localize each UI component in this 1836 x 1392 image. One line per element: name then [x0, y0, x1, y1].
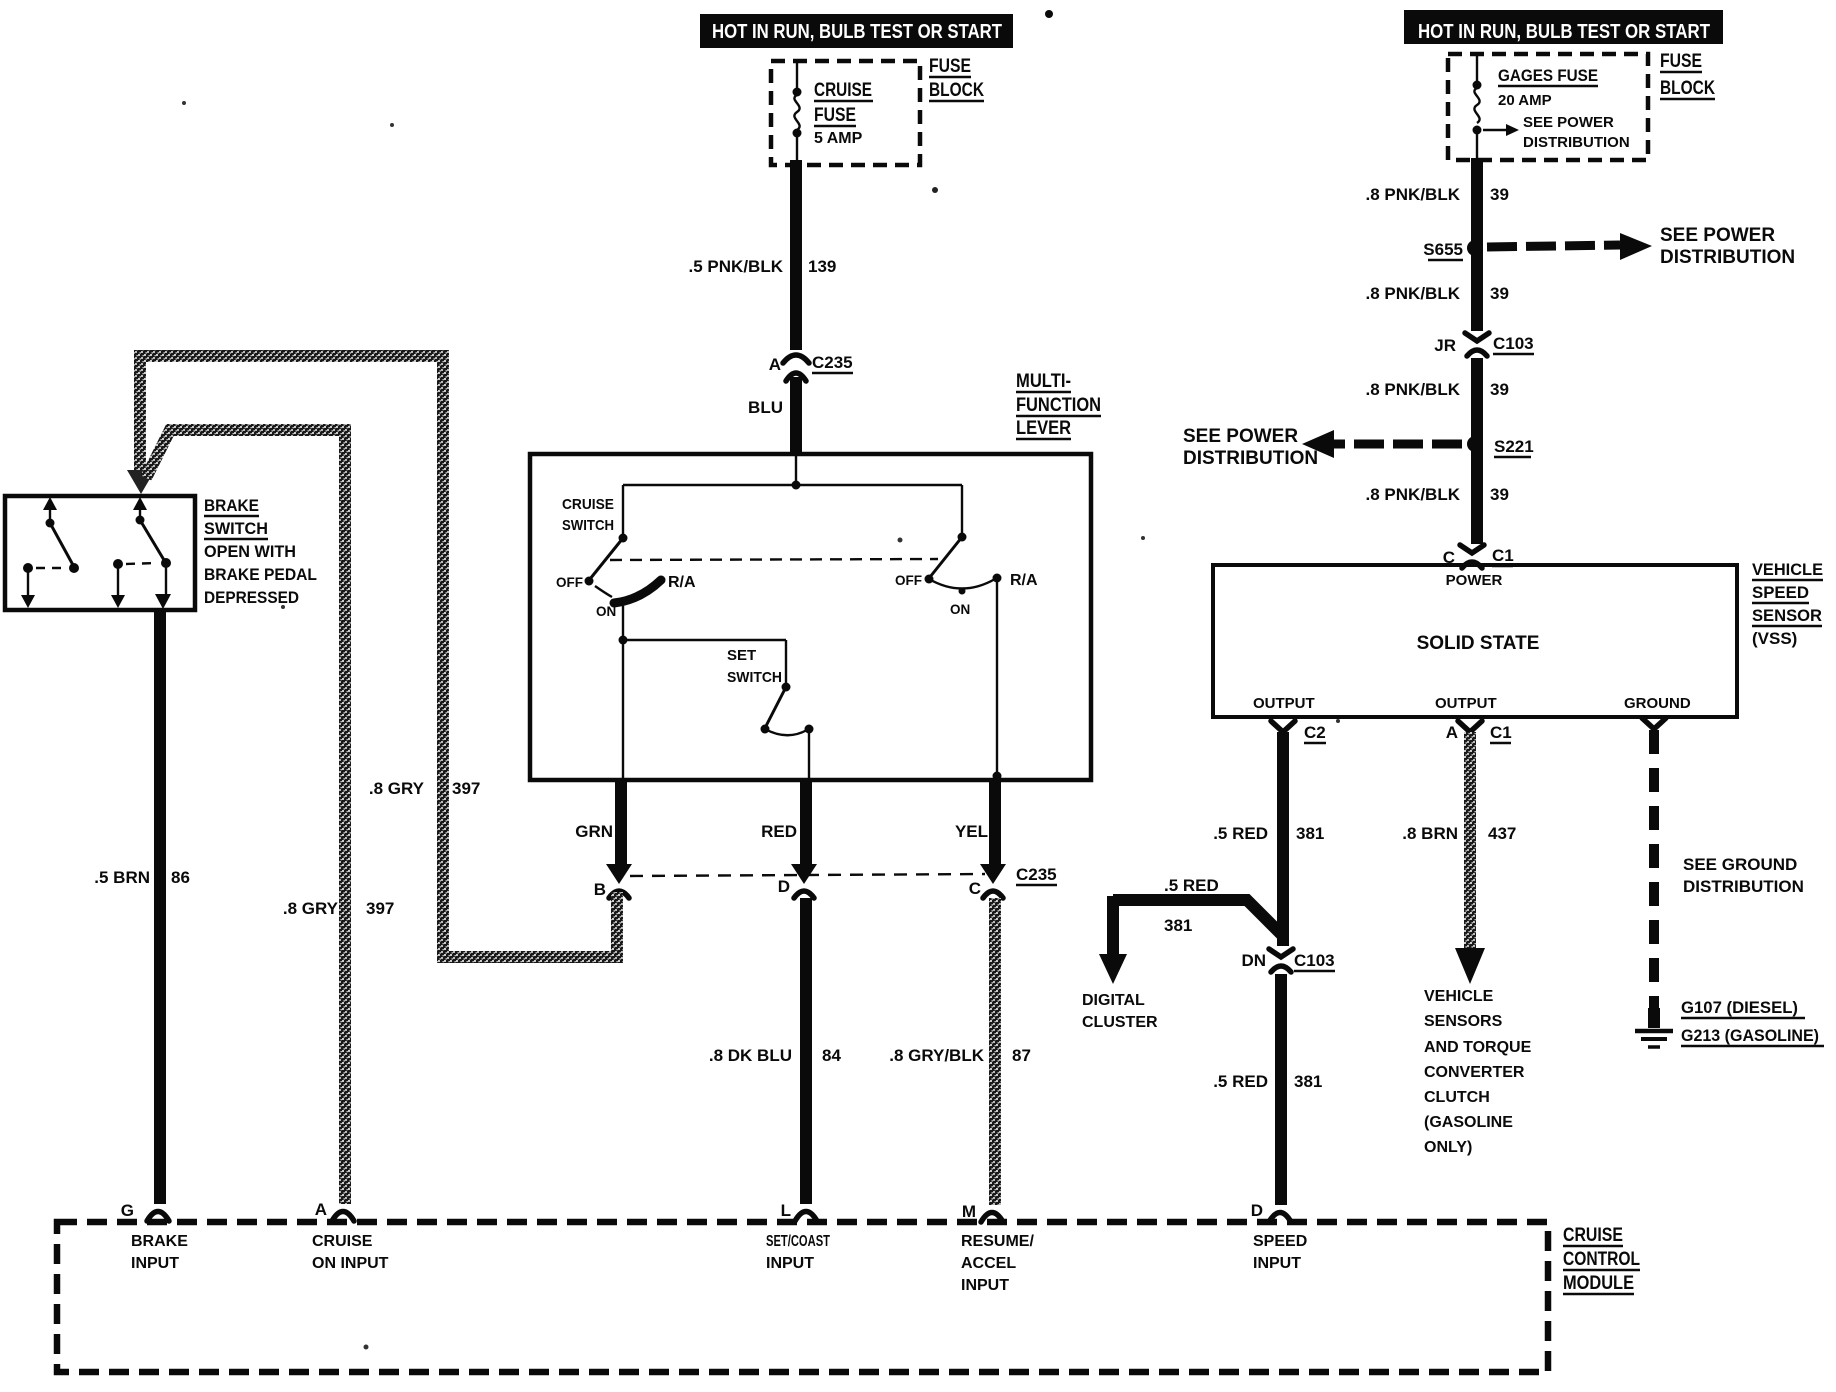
wire .8 GRY 397 from brake switch to module A (screened)	[146, 430, 394, 1204]
label BRAKE SWITCH OPEN WITH BRAKE PEDAL DEPRESSED	[204, 496, 317, 607]
svg-text:(VSS): (VSS)	[1752, 629, 1797, 648]
svg-text:GRN: GRN	[575, 822, 613, 841]
module pin A	[315, 1200, 354, 1221]
connector C235 pin A	[769, 353, 853, 381]
svg-text:.5 BRN: .5 BRN	[94, 868, 150, 887]
module pin M	[962, 1202, 1003, 1222]
label VEHICLE SENSORS AND TORQUE CONVERTER CLUTCH (GASOLINE ONLY)	[1424, 988, 1532, 1156]
label MULTI-FUNCTION LEVER	[1016, 371, 1101, 439]
svg-text:C103: C103	[1493, 334, 1534, 353]
svg-text:CONVERTER: CONVERTER	[1424, 1064, 1525, 1081]
wire 139 PNK/BLK from fuse to C235	[790, 160, 802, 350]
svg-text:SENSOR: SENSOR	[1752, 606, 1822, 625]
svg-text:84: 84	[822, 1046, 841, 1065]
svg-text:87: 87	[1012, 1046, 1031, 1065]
svg-text:.8 PNK/BLK: .8 PNK/BLK	[1366, 485, 1461, 504]
label G213 (GASOLINE)	[1681, 1026, 1824, 1046]
svg-text:BRAKE: BRAKE	[204, 496, 259, 515]
svg-text:CLUTCH: CLUTCH	[1424, 1089, 1490, 1106]
svg-text:INPUT: INPUT	[961, 1277, 1009, 1294]
label GROUND	[1624, 695, 1691, 712]
svg-text:GAGES FUSE: GAGES FUSE	[1498, 66, 1598, 85]
wire .8 PNK/BLK 39 seg1	[1366, 158, 1509, 331]
label CRUISE FUSE 5 AMP	[814, 80, 873, 147]
splice S221	[1467, 436, 1534, 457]
label SEE GROUND DISTRIBUTION	[1683, 855, 1804, 896]
svg-text:OUTPUT: OUTPUT	[1253, 695, 1315, 712]
module pin D	[1251, 1201, 1291, 1222]
dashed ground wire	[1649, 730, 1659, 1028]
svg-text:A: A	[769, 355, 781, 374]
label SOLID STATE	[1417, 633, 1540, 654]
svg-text:OUTPUT: OUTPUT	[1435, 695, 1497, 712]
svg-text:.8 GRY/BLK: .8 GRY/BLK	[889, 1046, 984, 1065]
svg-text:.5 PNK/BLK: .5 PNK/BLK	[689, 257, 784, 276]
svg-text:SEE POWER: SEE POWER	[1660, 225, 1775, 246]
dashed arrow right: see power distribution	[1487, 225, 1795, 268]
label .5 PNK/BLK 139	[689, 257, 837, 276]
node: lever feed junction	[792, 456, 801, 490]
svg-text:S655: S655	[1423, 240, 1463, 259]
svg-text:ACCEL: ACCEL	[961, 1255, 1016, 1272]
svg-text:C1: C1	[1492, 546, 1514, 565]
svg-text:SOLID STATE: SOLID STATE	[1417, 633, 1540, 654]
set switch	[761, 683, 814, 779]
svg-text:SENSORS: SENSORS	[1424, 1013, 1503, 1030]
svg-text:381: 381	[1296, 824, 1324, 843]
cruise fuse element 5A	[793, 61, 802, 162]
connector C235 pin B	[594, 864, 632, 899]
svg-text:SEE GROUND: SEE GROUND	[1683, 855, 1797, 874]
wire BLU into lever	[748, 377, 796, 453]
svg-text:BRAKE PEDAL: BRAKE PEDAL	[204, 565, 317, 584]
svg-text:INPUT: INPUT	[766, 1255, 814, 1272]
svg-text:C103: C103	[1294, 951, 1335, 970]
svg-text:86: 86	[171, 868, 190, 887]
svg-text:20 AMP: 20 AMP	[1498, 92, 1552, 109]
svg-text:.8 BRN: .8 BRN	[1402, 824, 1458, 843]
wire .8 DK BLU 84 to module L	[709, 898, 842, 1204]
svg-text:D: D	[778, 877, 790, 896]
svg-text:39: 39	[1490, 284, 1509, 303]
svg-text:HOT IN RUN, BULB TEST OR START: HOT IN RUN, BULB TEST OR START	[1418, 21, 1710, 43]
wire .8 GRY 397 loop from C235-B to brake switch (screened)	[140, 356, 617, 957]
wire .8 GRY/BLK 87 to module M (screened)	[889, 898, 1031, 1205]
svg-text:G107 (DIESEL): G107 (DIESEL)	[1681, 998, 1798, 1017]
wire .5 RED 381 to module D	[1213, 974, 1322, 1205]
ground symbol	[1635, 1031, 1673, 1047]
svg-text:G213 (GASOLINE): G213 (GASOLINE)	[1681, 1026, 1819, 1045]
svg-text:G: G	[121, 1201, 134, 1220]
svg-text:DEPRESSED: DEPRESSED	[204, 588, 299, 607]
arrow: see power distribution (in fuse block)	[1483, 114, 1630, 151]
svg-text:FUSE: FUSE	[814, 105, 856, 126]
svg-text:39: 39	[1490, 185, 1509, 204]
svg-text:437: 437	[1488, 824, 1516, 843]
svg-text:JR: JR	[1434, 336, 1456, 355]
svg-text:MULTI-: MULTI-	[1016, 371, 1071, 392]
wire YEL	[955, 780, 995, 866]
svg-text:C235: C235	[812, 353, 853, 372]
svg-text:B: B	[594, 880, 606, 899]
svg-text:OFF: OFF	[556, 575, 583, 590]
svg-text:SET/COAST: SET/COAST	[766, 1233, 830, 1250]
label RESUME/ACCEL INPUT	[961, 1233, 1034, 1294]
svg-text:ON: ON	[596, 604, 616, 619]
brake switch box	[5, 496, 195, 610]
svg-text:CLUSTER: CLUSTER	[1082, 1014, 1158, 1031]
connector C235 pin D	[778, 864, 817, 898]
svg-text:POWER: POWER	[1446, 572, 1503, 589]
wire .8 PNK/BLK 39 seg3	[1366, 358, 1509, 544]
svg-text:.5 RED: .5 RED	[1164, 876, 1219, 895]
label DIGITAL CLUSTER	[1082, 992, 1158, 1031]
svg-text:DIGITAL: DIGITAL	[1082, 992, 1145, 1009]
svg-text:397: 397	[366, 899, 394, 918]
connector C2 (VSS output)	[1271, 721, 1326, 743]
connector C103 pin DN	[1241, 949, 1335, 972]
svg-text:BLOCK: BLOCK	[929, 80, 984, 101]
wire GRN	[575, 780, 621, 866]
svg-text:LEVER: LEVER	[1016, 418, 1071, 439]
wire: internal bus across lever	[623, 484, 962, 486]
svg-text:39: 39	[1490, 380, 1509, 399]
label FUSE BLOCK (left)	[929, 56, 984, 101]
svg-text:.8 PNK/BLK: .8 PNK/BLK	[1366, 185, 1461, 204]
svg-text:A: A	[315, 1200, 327, 1219]
svg-text:CRUISE: CRUISE	[1563, 1225, 1623, 1246]
svg-text:.8 DK BLU: .8 DK BLU	[709, 1046, 792, 1065]
svg-text:.5 RED: .5 RED	[1213, 824, 1268, 843]
svg-text:C: C	[969, 879, 981, 898]
svg-text:C235: C235	[1016, 865, 1057, 884]
svg-text:S221: S221	[1494, 437, 1534, 456]
label CRUISE ON INPUT	[312, 1233, 389, 1272]
svg-text:(GASOLINE: (GASOLINE	[1424, 1114, 1513, 1131]
svg-text:SPEED: SPEED	[1752, 583, 1809, 602]
svg-text:R/A: R/A	[1010, 572, 1038, 589]
svg-text:SET: SET	[727, 647, 756, 664]
svg-text:5 AMP: 5 AMP	[814, 130, 863, 147]
splice S655	[1423, 240, 1483, 260]
svg-text:INPUT: INPUT	[131, 1255, 179, 1272]
label OUTPUT (mid)	[1435, 695, 1497, 712]
svg-text:GROUND: GROUND	[1624, 695, 1691, 712]
svg-text:BLU: BLU	[748, 398, 783, 417]
svg-text:SWITCH: SWITCH	[727, 669, 782, 686]
connector C1 pin A (VSS output)	[1446, 721, 1512, 743]
svg-text:SWITCH: SWITCH	[562, 517, 614, 534]
svg-text:BRAKE: BRAKE	[131, 1233, 188, 1250]
wire .5 BRN 86 brake switch to module G	[94, 610, 190, 1204]
wire branch .5 RED 381 to digital cluster	[1099, 876, 1283, 984]
vehicle speed sensor box	[1213, 565, 1737, 717]
svg-text:R/A: R/A	[668, 574, 696, 591]
svg-text:BLOCK: BLOCK	[1660, 78, 1715, 99]
svg-text:.8 PNK/BLK: .8 PNK/BLK	[1366, 380, 1461, 399]
svg-text:.8 PNK/BLK: .8 PNK/BLK	[1366, 284, 1461, 303]
connector C1 pin C	[1443, 545, 1514, 568]
svg-text:.5 RED: .5 RED	[1213, 1072, 1268, 1091]
svg-text:39: 39	[1490, 485, 1509, 504]
svg-text:HOT IN RUN, BULB TEST OR START: HOT IN RUN, BULB TEST OR START	[712, 21, 1002, 43]
label .8 PNK/BLK 39 seg4	[1366, 485, 1509, 504]
svg-text:DISTRIBUTION: DISTRIBUTION	[1683, 877, 1804, 896]
dashed arrow left: see power distribution	[1183, 426, 1462, 469]
label SPEED INPUT	[1253, 1233, 1307, 1272]
svg-text:CRUISE: CRUISE	[312, 1233, 373, 1250]
svg-text:OPEN WITH: OPEN WITH	[204, 542, 296, 561]
label .8 PNK/BLK 39 seg2	[1366, 284, 1509, 303]
label G107 (DIESEL)	[1681, 998, 1805, 1018]
svg-text:SEE POWER: SEE POWER	[1183, 426, 1298, 447]
svg-text:VEHICLE: VEHICLE	[1752, 560, 1823, 579]
gages fuse element 20A	[1473, 54, 1482, 158]
label BRAKE INPUT	[131, 1233, 188, 1272]
fuse block FB1 dashed box	[771, 61, 920, 165]
label POWER	[1446, 572, 1503, 589]
svg-text:OFF: OFF	[895, 573, 922, 588]
scan specks	[182, 10, 1340, 1350]
svg-text:D: D	[1251, 1201, 1263, 1220]
multi-function lever box	[530, 454, 1091, 780]
svg-text:M: M	[962, 1202, 976, 1221]
ground pin of C1	[1642, 718, 1666, 729]
svg-text:RED: RED	[761, 822, 797, 841]
svg-text:139: 139	[808, 257, 836, 276]
svg-text:DISTRIBUTION: DISTRIBUTION	[1660, 247, 1795, 268]
svg-text:VEHICLE: VEHICLE	[1424, 988, 1494, 1005]
svg-text:397: 397	[452, 779, 480, 798]
svg-text:.8 GRY: .8 GRY	[283, 899, 339, 918]
svg-text:C1: C1	[1490, 723, 1512, 742]
brake switch pole 1	[21, 497, 79, 608]
cruise switch right pole	[895, 485, 1038, 781]
module pin G	[121, 1201, 169, 1221]
label GAGES FUSE 20 AMP	[1498, 66, 1598, 109]
connector C235 pin C	[969, 864, 1057, 898]
svg-text:C2: C2	[1304, 723, 1326, 742]
svg-text:381: 381	[1164, 916, 1192, 935]
svg-text:CRUISE: CRUISE	[562, 496, 614, 513]
svg-text:AND TORQUE: AND TORQUE	[1424, 1039, 1532, 1056]
svg-text:A: A	[1446, 723, 1458, 742]
svg-text:ON: ON	[950, 602, 970, 617]
wire .8 BRN 437 (screened) with arrow	[1402, 732, 1516, 984]
svg-text:YEL: YEL	[955, 822, 988, 841]
svg-text:CRUISE: CRUISE	[814, 80, 872, 101]
cruise switch left pole	[556, 485, 696, 640]
svg-text:.8 GRY: .8 GRY	[369, 779, 425, 798]
svg-text:381: 381	[1294, 1072, 1322, 1091]
wire .5 RED 381 from C2	[1213, 732, 1324, 946]
label FUSE BLOCK (right)	[1660, 51, 1715, 99]
node: left pole to set-switch junction	[619, 636, 787, 688]
label SET SWITCH	[727, 647, 782, 686]
svg-text:RESUME/: RESUME/	[961, 1233, 1034, 1250]
cruise control module dashed box	[57, 1222, 1548, 1372]
brake switch pole 2	[111, 497, 171, 609]
banner: HOT IN RUN, BULB TEST OR START (right)	[1404, 10, 1723, 44]
label CRUISE SWITCH	[562, 496, 614, 534]
label SET/COAST INPUT	[766, 1233, 830, 1272]
label CRUISE CONTROL MODULE	[1563, 1225, 1640, 1294]
svg-text:SWITCH: SWITCH	[204, 519, 268, 538]
svg-text:DISTRIBUTION: DISTRIBUTION	[1523, 134, 1630, 151]
svg-text:FUSE: FUSE	[929, 56, 971, 77]
dashed connector gang line C235 row	[630, 874, 985, 876]
svg-text:INPUT: INPUT	[1253, 1255, 1301, 1272]
svg-text:FUNCTION: FUNCTION	[1016, 395, 1101, 416]
svg-text:ONLY): ONLY)	[1424, 1139, 1472, 1156]
svg-text:L: L	[781, 1201, 791, 1220]
wire: left pole down to GRN output	[622, 640, 624, 778]
svg-text:DN: DN	[1241, 951, 1266, 970]
svg-text:ON INPUT: ON INPUT	[312, 1255, 389, 1272]
svg-text:SPEED: SPEED	[1253, 1233, 1307, 1250]
label OUTPUT (left)	[1253, 695, 1315, 712]
arrowhead into brake switch	[127, 470, 155, 494]
connector C103 pin JR	[1434, 333, 1534, 356]
dashed gang line between switch blades	[610, 559, 938, 560]
banner: HOT IN RUN, BULB TEST OR START (left)	[700, 14, 1013, 48]
svg-text:CONTROL: CONTROL	[1563, 1249, 1640, 1270]
wire RED	[761, 780, 806, 866]
label VEHICLE SPEED SENSOR (VSS)	[1752, 560, 1823, 648]
svg-text:MODULE: MODULE	[1563, 1273, 1634, 1294]
svg-text:SEE POWER: SEE POWER	[1523, 114, 1614, 131]
svg-text:DISTRIBUTION: DISTRIBUTION	[1183, 448, 1318, 469]
svg-text:FUSE: FUSE	[1660, 51, 1702, 72]
fuse block FB2 dashed box	[1448, 54, 1648, 160]
module pin L	[781, 1201, 817, 1221]
